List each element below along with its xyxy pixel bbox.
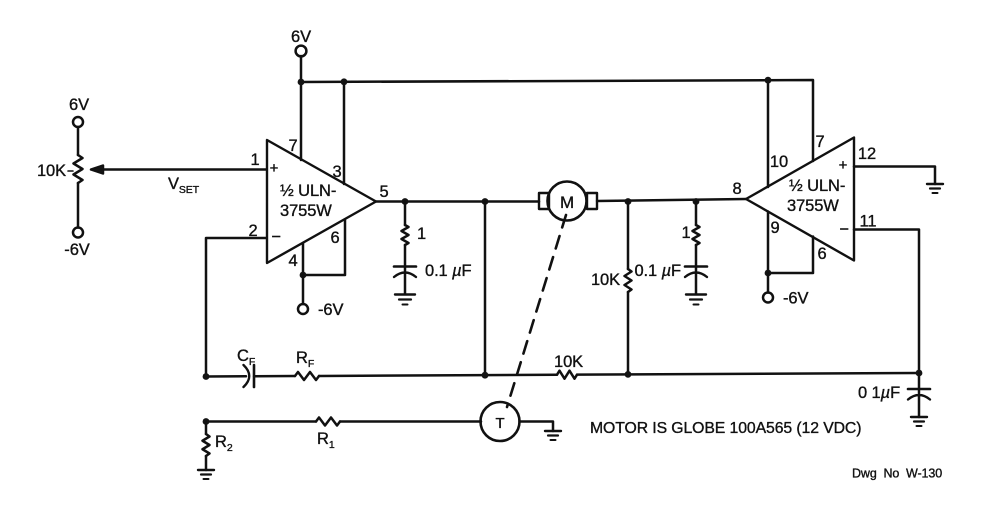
svg-text:+: + — [839, 157, 848, 174]
op-amp U1 (1/2 ULN-3755W, left) — [267, 140, 376, 263]
svg-text:6V: 6V — [291, 28, 311, 46]
resistor 1 ohm (right snubber) — [681, 200, 699, 245]
junction feedback tap left — [482, 198, 489, 205]
power 6V supply (top) — [291, 28, 311, 82]
wire RF to 10K — [319, 375, 557, 376]
capacitor 0.1uF (left snubber) — [394, 245, 472, 294]
svg-text:-6V: -6V — [64, 241, 89, 259]
svg-text:6V: 6V — [69, 96, 89, 114]
svg-text:−: − — [839, 221, 849, 239]
wire motor to pin 8 — [597, 199, 746, 201]
svg-text:CF: CF — [237, 347, 255, 368]
op-amp U2 (1/2 ULN-3755W, right) — [746, 138, 854, 261]
ground (R2) — [198, 470, 214, 479]
svg-text:+: + — [270, 160, 279, 177]
tachometer T — [481, 402, 520, 441]
svg-text:M: M — [560, 193, 574, 212]
svg-text:R1: R1 — [317, 430, 335, 451]
svg-text:10K: 10K — [37, 162, 66, 180]
junction feedback/output filter — [916, 370, 923, 377]
svg-text:VSET: VSET — [168, 175, 200, 196]
svg-text:3755W: 3755W — [787, 197, 839, 215]
wire feedback tap down — [484, 202, 487, 376]
capacitor CF — [237, 347, 255, 387]
svg-text:1: 1 — [250, 151, 259, 169]
junction feedback/pin2 — [203, 373, 210, 380]
svg-text:7: 7 — [815, 133, 824, 151]
wire pin 9 — [767, 212, 770, 274]
svg-text:3755W: 3755W — [280, 202, 332, 220]
resistor 1 ohm (left snubber) — [402, 202, 427, 246]
junction tach line / pin2 branch — [203, 418, 210, 425]
wire 10K to output filter — [577, 373, 919, 375]
power -6V terminal (left speed-set pot) — [64, 228, 89, 260]
svg-text:½ ULN-: ½ ULN- — [789, 177, 845, 195]
capacitor 0.1uF (right snubber) — [634, 245, 707, 294]
ground (left snubber) — [395, 295, 415, 305]
wire R1 to tach — [340, 420, 481, 423]
svg-text:10K: 10K — [554, 353, 583, 371]
wire Vset: pot wiper to pin 1 — [101, 168, 266, 171]
svg-text:1: 1 — [681, 224, 690, 242]
junction pin 10 / rail — [765, 77, 772, 84]
power 6V terminal (left speed-set pot) — [69, 96, 89, 155]
wire tach line left — [206, 420, 316, 423]
svg-text:11: 11 — [860, 213, 877, 231]
potentiometer 10K (speed set) — [37, 155, 83, 228]
wire pin 3 to rail — [343, 82, 346, 184]
svg-text:8: 8 — [732, 180, 741, 198]
ground (output filter) — [911, 417, 927, 426]
wire pin 4 — [302, 243, 305, 275]
svg-text:R2: R2 — [215, 433, 233, 454]
wire feedback bottom rail — [206, 375, 246, 378]
wire pin 2 feedback — [206, 238, 266, 376]
svg-text:1: 1 — [417, 225, 426, 243]
motor M — [539, 182, 597, 221]
junction snubber right — [693, 198, 700, 205]
junction pin4/pin6 — [300, 272, 307, 279]
wire pin 6 (left) — [303, 220, 345, 275]
svg-text:RF: RF — [296, 349, 314, 370]
svg-text:4: 4 — [288, 252, 297, 270]
wire CF to RF — [254, 375, 295, 378]
wire pin 12 to ground — [854, 167, 935, 185]
ground (tach) — [545, 431, 561, 440]
junction pin9/pin6 — [765, 270, 772, 277]
wire output rail pin5 to motor — [376, 200, 539, 203]
junction 10K divider tap — [625, 198, 632, 205]
svg-text:7: 7 — [288, 137, 297, 155]
svg-text:5: 5 — [379, 183, 388, 201]
svg-text:12: 12 — [858, 145, 876, 163]
svg-text:0.1 µF: 0.1 µF — [425, 262, 472, 280]
dashed mechanical link motor to tach — [507, 215, 566, 407]
svg-text:½ ULN-: ½ ULN- — [280, 182, 336, 200]
svg-text:Dwg No W-130: Dwg No W-130 — [852, 467, 942, 481]
resistor R2 — [203, 422, 233, 471]
resistor 10K (tach divider) — [591, 201, 632, 375]
ground (right snubber) — [686, 295, 706, 305]
svg-text:10: 10 — [770, 153, 788, 171]
junction feedback/10K divider — [625, 371, 632, 378]
power -6V terminal (right op-amp) — [763, 273, 808, 308]
svg-text:-6V: -6V — [783, 290, 808, 308]
svg-text:6: 6 — [330, 229, 339, 247]
junction feedback/motor-left tap — [482, 372, 489, 379]
svg-text:9: 9 — [770, 219, 779, 237]
svg-text:-6V: -6V — [318, 301, 343, 319]
wire pin 6 (right) — [768, 237, 813, 274]
junction at 6V drop — [298, 79, 305, 86]
wire pin 7 (left) to rail — [300, 82, 303, 160]
svg-text:MOTOR IS GLOBE 100A565 (12 VDC: MOTOR IS GLOBE 100A565 (12 VDC) — [590, 420, 861, 437]
svg-text:−: − — [271, 228, 281, 246]
resistor RF — [295, 349, 319, 380]
wire tach to ground — [520, 422, 554, 432]
wiper arrow of pot — [91, 166, 104, 174]
wire pin 10 to rail — [767, 80, 770, 187]
wire top supply rail — [301, 80, 813, 161]
junction snubber left — [402, 198, 409, 205]
ground (pin 12) — [927, 184, 943, 193]
svg-text:0 1µF: 0 1µF — [858, 384, 900, 402]
svg-text:6: 6 — [817, 245, 826, 263]
junction pin 3 / rail — [341, 78, 348, 85]
capacitor 0.1uF (output filter) — [858, 373, 930, 417]
wire pin 11 to output filter — [854, 230, 919, 374]
power -6V terminal (left op-amp) — [298, 275, 343, 319]
resistor R1 — [316, 418, 340, 452]
svg-text:10K: 10K — [591, 271, 620, 289]
svg-text:0.1 µF: 0.1 µF — [634, 262, 681, 280]
svg-text:T: T — [495, 415, 504, 432]
svg-text:3: 3 — [332, 163, 341, 181]
resistor 10K (feedback) — [554, 353, 583, 379]
